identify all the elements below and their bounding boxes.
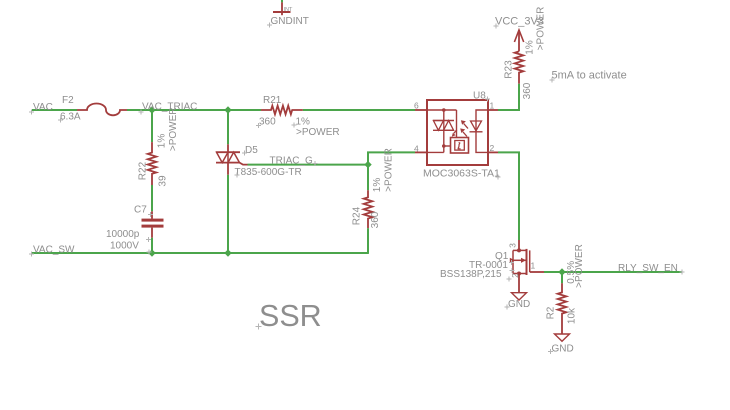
svg-text:GNDINT: GNDINT [271,16,309,27]
svg-text:>POWER: >POWER [574,244,585,288]
svg-text:10k: 10k [566,307,577,324]
svg-text:GND: GND [552,344,574,355]
transistor Q1 BSS138P [510,240,544,293]
svg-text:D5: D5 [245,145,258,156]
junction VAC_TRIAC at R22 column [148,106,155,113]
wire VAC_SW horizontal [32,252,368,254]
svg-text:2: 2 [490,143,495,153]
U8 light arrow 2 [460,128,467,136]
U8 internal link to ZC box [444,145,451,147]
junction VAC_TRIAC at D5 column [224,106,231,113]
resistor R22 [148,142,157,185]
U8 zero-crossing glyph [458,142,461,149]
svg-text:GND: GND [508,299,530,310]
svg-text:39: 39 [158,175,169,187]
svg-text:360: 360 [370,211,381,228]
svg-text:T835-600G-TR: T835-600G-TR [235,167,302,178]
capacitor C7 [142,211,164,238]
U8 pin 6 stub [415,109,427,111]
svg-text:TRIAC_G: TRIAC_G [270,155,314,166]
wire R22 to C7 [151,185,153,211]
wire C7 to VAC_SW [151,238,153,253]
wire R24 bottom to VAC_SW [367,228,369,254]
U8 internal pin4 rail [427,151,444,153]
wire U8 pin 2 down to Q1 drain [498,152,519,240]
junction VAC_SW at D5 column [224,249,231,256]
svg-text:2: 2 [510,273,520,278]
svg-text:>POWER: >POWER [168,107,179,151]
U8 internal triac feed [443,110,445,121]
resistor R23 [515,51,524,83]
fuse F2 [77,104,127,116]
wire VAC_TRIAC horizontal segment [127,109,261,111]
wire VAC net left segment [32,109,77,111]
junction Q1 drain [517,248,521,252]
svg-text:3: 3 [508,243,518,248]
svg-text:1%: 1% [525,40,536,55]
power VCC_3V3 arrow [514,30,523,51]
svg-text:SSR: SSR [259,299,322,333]
svg-text:R23: R23 [504,60,515,79]
svg-text:1: 1 [531,261,536,271]
svg-text:1000V: 1000V [110,241,139,252]
U8 internal triac [433,121,454,131]
U8 internal gate rail [456,110,458,138]
U8 internal triac to body rail [443,130,445,152]
wire R2 column upper [561,272,563,283]
svg-text:INT: INT [284,7,294,13]
U8 light arrow 1 [461,120,468,128]
wire D5 column lower [227,175,229,253]
svg-text:360: 360 [259,117,276,128]
U8 pin 4 stub [415,151,427,153]
svg-text:5mA to activate: 5mA to activate [552,70,627,82]
U8 internal junction top [442,108,446,112]
svg-text:4: 4 [414,144,419,154]
U8 internal junction lower [442,144,446,148]
U8 zero-crossing box [451,138,469,154]
wire RLY_SW_EN [544,271,682,273]
svg-text:10000p: 10000p [106,229,140,240]
U8 zero-crossing inner box [455,141,465,151]
junction TRIAC_G at R24 column [364,161,371,168]
svg-text:>POWER: >POWER [536,7,547,51]
ground GND under Q1 [512,293,527,300]
junction Q1 source [517,272,521,276]
svg-text:>POWER: >POWER [384,148,395,192]
svg-text:BSS138P,215: BSS138P,215 [440,269,502,280]
U8 internal LED cathode rail [476,132,488,153]
svg-text:RLY_SW_EN: RLY_SW_EN [618,263,678,274]
U8 internal top rail [427,109,457,111]
svg-text:R2: R2 [545,306,556,319]
svg-text:C7: C7 [134,205,147,216]
svg-text:R22: R22 [137,161,148,180]
wire R24 column from U8 pin 4 [368,152,415,190]
ground GND under R2 [555,334,570,341]
svg-text:1%: 1% [156,134,167,149]
svg-text:6.3A: 6.3A [60,112,81,123]
resistor R2 [558,283,567,334]
svg-text:R21: R21 [263,95,282,106]
svg-text:MOC3063S-TA1: MOC3063S-TA1 [423,168,500,180]
power GNDINT symbol [273,0,293,15]
U8 pin 1 stub [488,109,498,111]
origin crosses [29,23,685,355]
svg-text:1%: 1% [372,178,383,193]
svg-text:6: 6 [414,101,419,111]
U8 pin 2 stub [488,151,498,153]
wire R23 to U8 pin 1 [498,84,519,110]
resistor R24 [364,190,373,228]
svg-text:1: 1 [490,101,495,111]
U8 internal LED [470,121,483,132]
triac D5 [216,144,248,175]
svg-text:VAC_SW: VAC_SW [33,245,75,256]
svg-text:F2: F2 [62,95,74,106]
resistor R21 [261,106,303,115]
wire R22 column upper [151,110,153,142]
svg-text:R24: R24 [352,206,363,225]
op-amp U8 optocoupler MOC3063S body [427,100,488,165]
svg-text:U8: U8 [473,91,486,102]
wire TRIAC_G [248,164,369,166]
svg-text:VAC: VAC [33,102,53,113]
wire D5 column upper [227,110,229,144]
U8 internal LED anode rail [476,110,488,132]
svg-text:>POWER: >POWER [296,127,340,138]
U8 internal gate arrow [454,130,457,134]
svg-text:360: 360 [522,82,533,99]
junction RLY_SW_EN at R2 column [558,268,565,275]
junction VAC_SW at R22 column [148,249,155,256]
wire from R21 to U8 pin 6 [303,109,415,111]
